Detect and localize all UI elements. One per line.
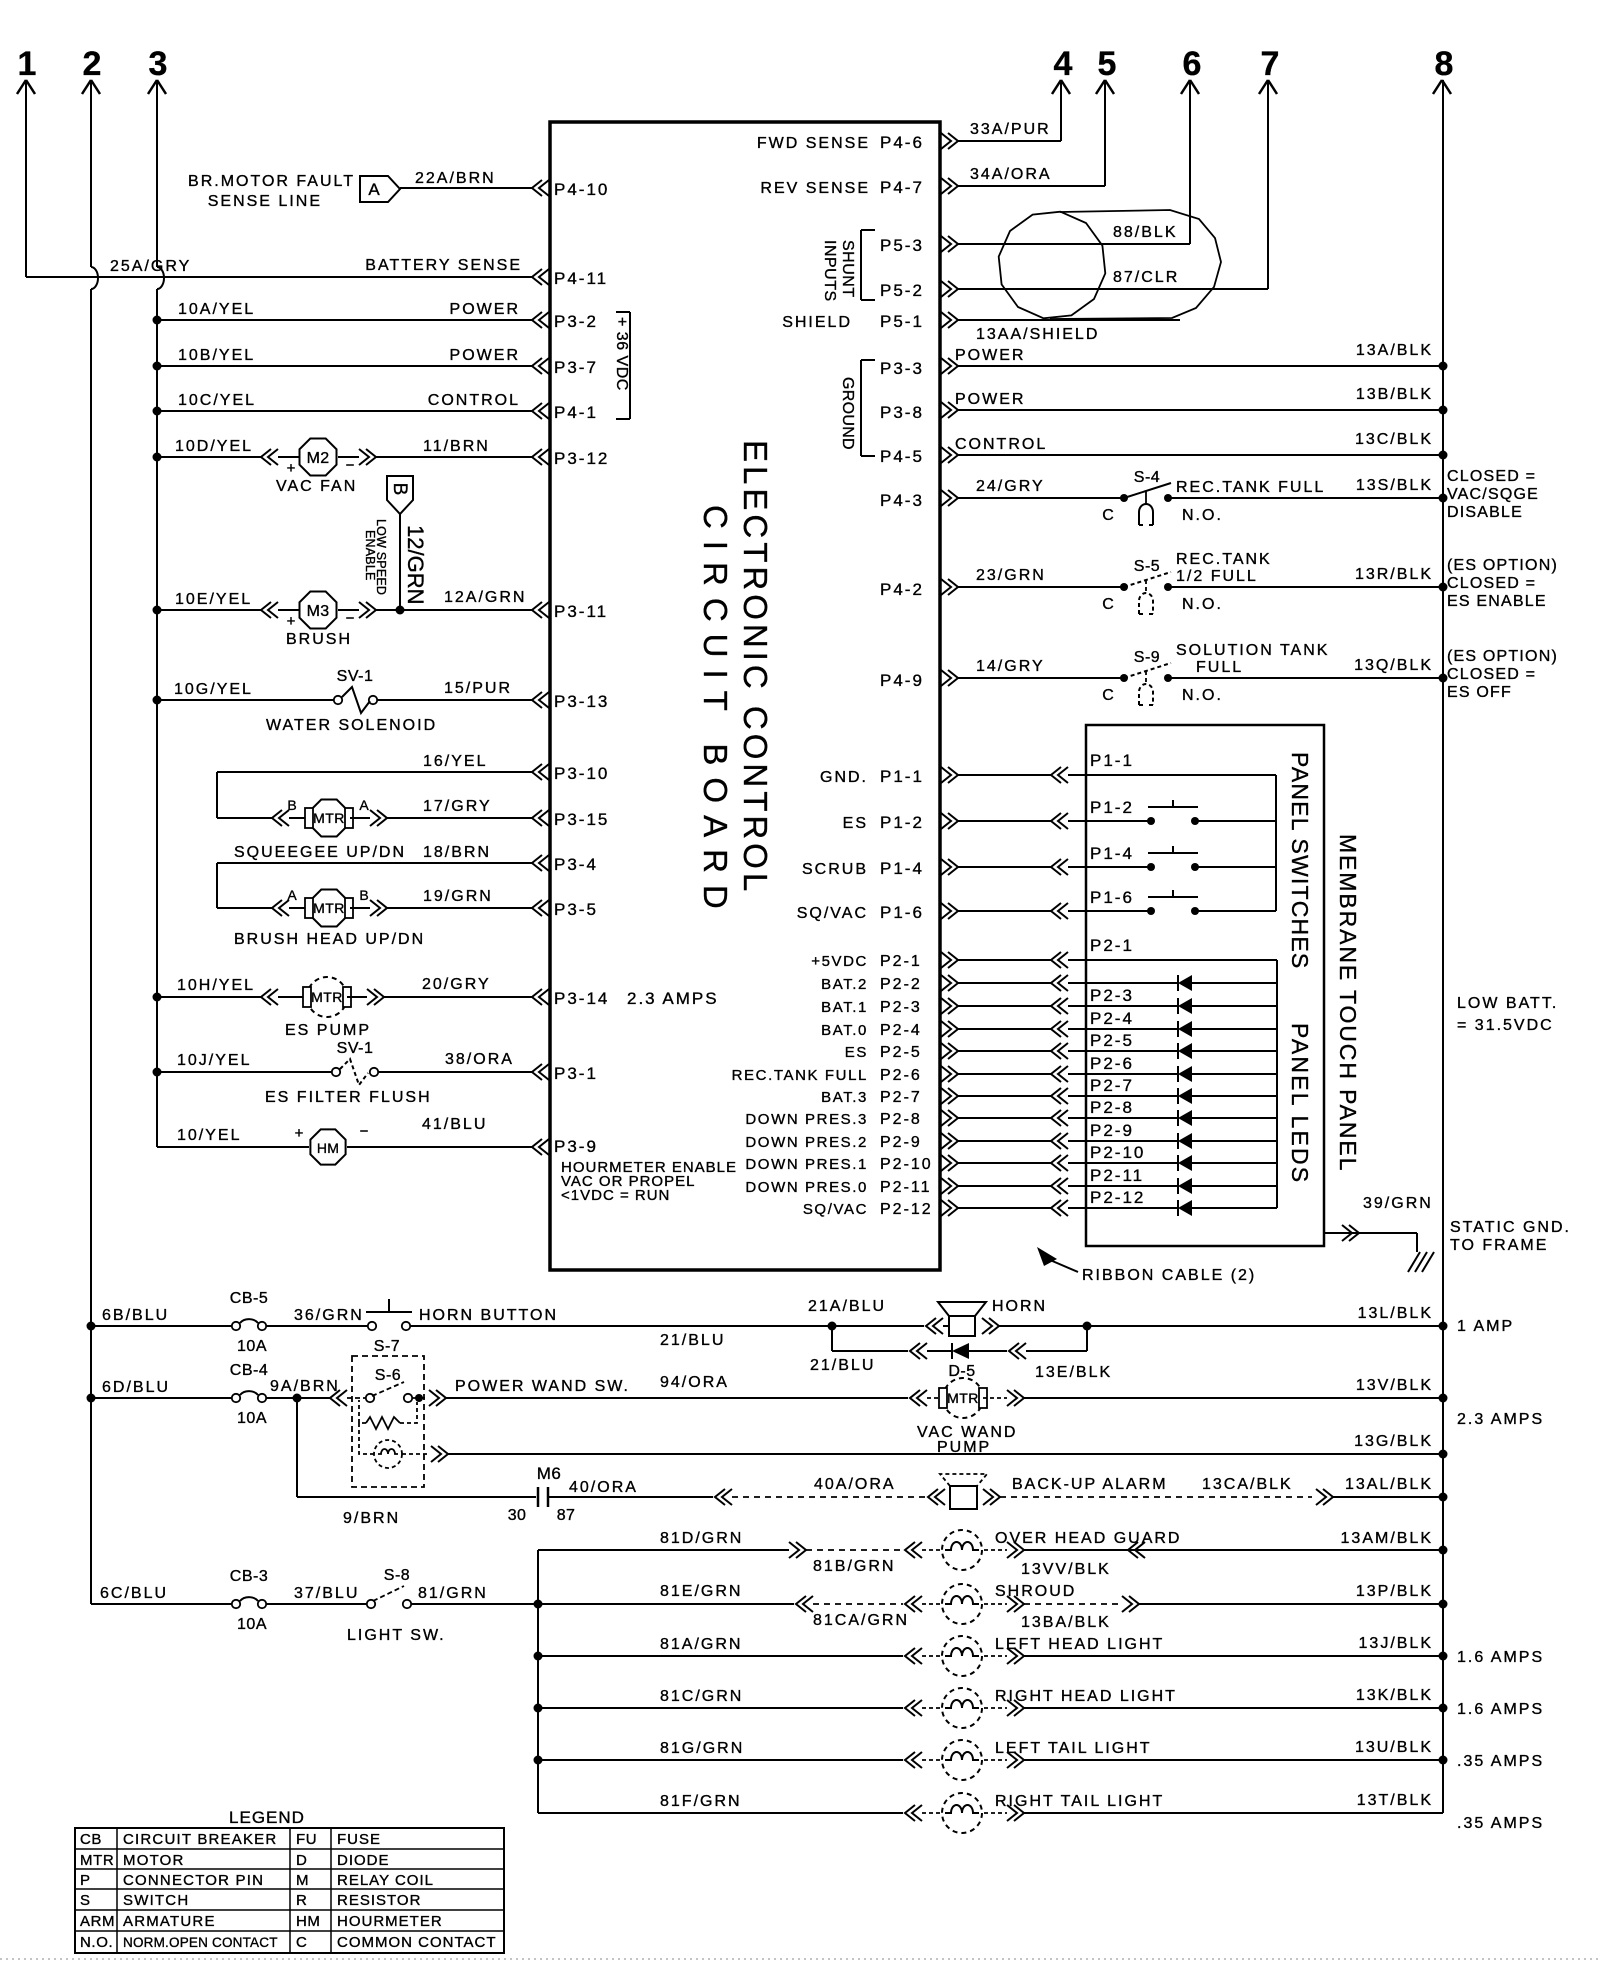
wire 13U/BLK [1024, 1739, 1544, 1770]
svg-text:N.O.: N.O. [80, 1934, 113, 1951]
wire bus 3 (10/YEL feed from arrow 3) [157, 80, 164, 1147]
svg-text:BACK-UP ALARM: BACK-UP ALARM [1012, 1476, 1168, 1493]
lamp (LEFT HEAD LIGHT) [922, 1636, 1164, 1676]
svg-text:P1-1: P1-1 [1090, 751, 1134, 770]
wire P1-4 ribbon [958, 859, 1086, 875]
svg-text:FUSE: FUSE [337, 1831, 381, 1848]
diode D-5 (horn suppression) [810, 1326, 1112, 1381]
svg-text:DOWN PRES.3: DOWN PRES.3 [745, 1111, 868, 1128]
horn (21A/BLU) [808, 1298, 1092, 1336]
svg-text:BRUSH: BRUSH [286, 631, 352, 648]
svg-text:10G/YEL: 10G/YEL [174, 681, 253, 698]
wire 13S/BLK [1168, 477, 1448, 503]
svg-text:81C/GRN: 81C/GRN [660, 1688, 743, 1705]
svg-text:RESISTOR: RESISTOR [337, 1892, 421, 1909]
svg-text:M3: M3 [307, 603, 330, 620]
wire P2-2 ribbon [958, 975, 1086, 991]
svg-text:P4-5: P4-5 [880, 447, 924, 466]
wire 13V/BLK (vac wand pump to bus) [1024, 1377, 1544, 1428]
wire 18/BRN (brush head motor supply) [217, 844, 532, 908]
svg-text:PANEL SWITCHES: PANEL SWITCHES [1287, 752, 1313, 969]
svg-text:P4-2: P4-2 [880, 580, 924, 599]
svg-text:13B/BLK: 13B/BLK [1356, 386, 1433, 403]
lamp (OVER HEAD GUARD) [806, 1530, 1181, 1575]
node 2 (harness arrow 2) [82, 45, 101, 94]
svg-text:5: 5 [1098, 45, 1117, 83]
svg-text:SOLUTION TANK: SOLUTION TANK [1176, 642, 1329, 659]
pin P3-15 [532, 810, 609, 829]
pin P1-1 (GND.) [820, 767, 958, 786]
lamp (RIGHT TAIL LIGHT) [922, 1793, 1164, 1833]
svg-text:13G/BLK: 13G/BLK [1354, 1433, 1433, 1450]
LED P2-4 [1086, 1009, 1277, 1037]
annotation LOW BATT [1457, 995, 1558, 1034]
svg-text:CONTROL: CONTROL [955, 436, 1047, 453]
svg-text:CONTROL: CONTROL [428, 392, 520, 409]
svg-text:P2-1: P2-1 [1090, 936, 1134, 955]
svg-text:P2-11: P2-11 [880, 1179, 932, 1196]
svg-text:6: 6 [1183, 45, 1202, 83]
svg-text:23/GRN: 23/GRN [976, 567, 1046, 584]
svg-text:1 AMP: 1 AMP [1457, 1318, 1514, 1335]
wire P2-10 ribbon [958, 1155, 1086, 1171]
wire 10A/YEL (POWER) [153, 301, 533, 325]
resistor (wand pump soft start) [359, 1400, 417, 1429]
wire 39/GRN (static ground) [1324, 1195, 1433, 1252]
pin P3-5 [532, 900, 598, 919]
svg-text:P3-1: P3-1 [554, 1064, 598, 1083]
scan artifact line [0, 1958, 1600, 1960]
svg-text:CB-3: CB-3 [230, 1568, 268, 1585]
svg-text:13CA/BLK: 13CA/BLK [1202, 1476, 1293, 1493]
pin P3-4 [532, 855, 598, 874]
svg-text:REV SENSE: REV SENSE [760, 180, 870, 197]
svg-text:17/GRY: 17/GRY [423, 798, 492, 815]
svg-text:81G/GRN: 81G/GRN [660, 1740, 744, 1757]
svg-text:LOW BATT.: LOW BATT. [1457, 995, 1558, 1012]
svg-text:CB: CB [80, 1831, 102, 1848]
svg-text:ELECTRONIC CONTROL: ELECTRONIC CONTROL [737, 440, 774, 895]
svg-text:13V/BLK: 13V/BLK [1356, 1377, 1433, 1394]
svg-text:FWD SENSE: FWD SENSE [757, 135, 870, 152]
svg-text:14/GRY: 14/GRY [976, 658, 1045, 675]
wire 25A/GRY (battery sense, arrow 1 to P4-11) [26, 257, 532, 277]
wire P2-3 ribbon [958, 998, 1086, 1014]
wire P2-6 ribbon [958, 1066, 1086, 1082]
svg-text:P3-14: P3-14 [554, 989, 609, 1008]
node 6 (harness arrow 6) [1181, 45, 1201, 94]
svg-text:13L/BLK: 13L/BLK [1358, 1305, 1433, 1322]
wire 9/BRN (to relay contact M6) [297, 1398, 536, 1527]
wire 13R/BLK [1168, 566, 1448, 592]
svg-text:POWER: POWER [955, 347, 1025, 364]
switch S-9 (SOLUTION TANK FULL) [1102, 649, 1223, 705]
svg-text:9A/BRN: 9A/BRN [270, 1378, 340, 1395]
svg-text:REC.TANK FULL: REC.TANK FULL [1176, 479, 1325, 496]
svg-text:(ES OPTION): (ES OPTION) [1447, 648, 1558, 665]
svg-text:13AM/BLK: 13AM/BLK [1341, 1530, 1433, 1547]
switch S-4 (REC.TANK FULL) [1102, 469, 1223, 525]
svg-text:33A/PUR: 33A/PUR [970, 121, 1051, 138]
svg-text:13Q/BLK: 13Q/BLK [1354, 657, 1433, 674]
svg-text:P3-3: P3-3 [880, 359, 924, 378]
wire P2-4 ribbon [958, 1021, 1086, 1037]
svg-text:PANEL LEDS: PANEL LEDS [1287, 1023, 1313, 1184]
svg-text:21/BLU: 21/BLU [660, 1332, 725, 1349]
svg-text:30: 30 [508, 1507, 526, 1524]
LED P2-6 [1086, 1054, 1277, 1082]
svg-text:ES ENABLE: ES ENABLE [1447, 593, 1547, 610]
circuit breaker CB-4 (10A) [87, 1362, 269, 1427]
pin P3-2 [532, 312, 598, 331]
svg-text:10/YEL: 10/YEL [177, 1127, 241, 1144]
wire bus 8 (13/BLK ground bus) [1442, 80, 1444, 1813]
pin P3-7 [532, 358, 598, 377]
svg-text:HM: HM [296, 1913, 321, 1930]
svg-text:P2-7: P2-7 [1090, 1076, 1134, 1095]
svg-text:BAT.2: BAT.2 [821, 976, 868, 993]
pin P3-11 [532, 602, 608, 621]
svg-text:BAT.3: BAT.3 [821, 1089, 868, 1106]
svg-text:FU: FU [296, 1831, 317, 1848]
svg-text:SHIELD: SHIELD [782, 314, 852, 331]
svg-text:ES PUMP: ES PUMP [285, 1022, 371, 1039]
svg-text:CB-4: CB-4 [230, 1362, 268, 1379]
pin P4-11 [532, 269, 608, 288]
svg-text:P3-12: P3-12 [554, 449, 609, 468]
wire P2-12 ribbon [958, 1200, 1086, 1216]
svg-text:WATER SOLENOID: WATER SOLENOID [266, 717, 437, 734]
wire P1-6 ribbon [958, 903, 1086, 919]
svg-text:RIBBON CABLE (2): RIBBON CABLE (2) [1082, 1267, 1256, 1284]
pin P1-2 (ES) [843, 813, 958, 832]
pin P2-9 (DOWN PRES.2) [745, 1133, 958, 1151]
svg-text:MTR: MTR [311, 989, 343, 1005]
svg-text:P3-13: P3-13 [554, 692, 609, 711]
svg-text:A: A [359, 797, 369, 813]
svg-text:P4-6: P4-6 [880, 133, 924, 152]
svg-text:POWER: POWER [955, 391, 1025, 408]
pin P1-4 (SCRUB) [802, 859, 958, 878]
wire 11/BRN (M2 to P3-12) [338, 438, 532, 465]
svg-text:P2-5: P2-5 [880, 1044, 922, 1061]
svg-text:SCRUB: SCRUB [802, 861, 868, 878]
wire 81G/GRN [538, 1740, 922, 1768]
pin P5-2 [880, 281, 958, 300]
svg-text:10B/YEL: 10B/YEL [178, 347, 255, 364]
svg-text:−: − [346, 457, 355, 474]
svg-text:= 31.5VDC: = 31.5VDC [1457, 1017, 1554, 1034]
svg-text:81F/GRN: 81F/GRN [660, 1793, 742, 1810]
wire P1-1 (panel common) [1086, 751, 1276, 911]
svg-text:P3-9: P3-9 [554, 1137, 598, 1156]
svg-text:P3-4: P3-4 [554, 855, 598, 874]
svg-text:SQ/VAC: SQ/VAC [803, 1201, 868, 1218]
svg-text:CLOSED =: CLOSED = [1447, 666, 1536, 683]
svg-text:10A/YEL: 10A/YEL [178, 301, 255, 318]
wire 17/GRY (squeegee motor to P3-15) [350, 798, 532, 826]
wire 24/GRY (P4-3 to S-4) [958, 478, 1124, 498]
svg-text:2: 2 [83, 45, 102, 83]
svg-text:N.O.: N.O. [1182, 687, 1223, 704]
svg-text:HOURMETER: HOURMETER [337, 1913, 443, 1930]
wire 13AM/BLK [1021, 1530, 1448, 1578]
svg-text:LEFT HEAD LIGHT: LEFT HEAD LIGHT [995, 1636, 1164, 1653]
lamp (RIGHT HEAD LIGHT) [922, 1688, 1177, 1728]
svg-text:POWER: POWER [450, 301, 520, 318]
svg-text:MTR: MTR [313, 810, 345, 826]
LED P2-8 [1086, 1098, 1277, 1126]
hourmeter HM [157, 1123, 369, 1165]
svg-text:DOWN PRES.2: DOWN PRES.2 [745, 1134, 868, 1151]
svg-text:25A/GRY: 25A/GRY [110, 258, 191, 275]
svg-text:MTR: MTR [947, 1390, 979, 1406]
svg-text:P2-6: P2-6 [880, 1067, 922, 1084]
relay contact M6 (30/87) [508, 1464, 575, 1524]
pin P3-10 [532, 764, 609, 783]
svg-text:13T/BLK: 13T/BLK [1357, 1792, 1433, 1809]
svg-text:+: + [287, 613, 296, 630]
svg-text:VAC/SQGE: VAC/SQGE [1447, 486, 1539, 503]
solenoid valve SV-1 (WATER SOLENOID) [153, 668, 438, 734]
svg-text:HORN BUTTON: HORN BUTTON [419, 1307, 558, 1324]
svg-text:RIGHT TAIL LIGHT: RIGHT TAIL LIGHT [995, 1793, 1164, 1810]
svg-text:P1-6: P1-6 [880, 903, 924, 922]
svg-text:<1VDC = RUN: <1VDC = RUN [561, 1187, 670, 1204]
svg-text:A: A [368, 180, 380, 199]
pin P3-8 (POWER ground) [880, 402, 958, 422]
pin P2-11 (DOWN PRES.0) [745, 1178, 958, 1196]
annotation (ES OPTION) [1447, 557, 1558, 610]
pin P4-5 (CONTROL ground) [880, 447, 958, 466]
svg-text:.35 AMPS: .35 AMPS [1457, 1753, 1544, 1770]
svg-text:B: B [389, 483, 410, 496]
svg-text:LEFT TAIL LIGHT: LEFT TAIL LIGHT [995, 1740, 1152, 1757]
svg-text:SHUNT: SHUNT [839, 240, 856, 298]
svg-text:34A/ORA: 34A/ORA [970, 166, 1052, 183]
wire bus 2 (6/BLU feed from arrow 2) [91, 80, 98, 1604]
svg-text:13C/BLK: 13C/BLK [1355, 431, 1433, 448]
wire P2-7 ribbon [958, 1088, 1086, 1104]
wire 13G/BLK (relay coil to bus) [431, 1433, 1448, 1462]
node 1 (harness arrow 1) [17, 45, 36, 277]
wire 13A/BLK [955, 342, 1448, 371]
svg-text:(ES OPTION): (ES OPTION) [1447, 557, 1558, 574]
flag B (low speed enable) [363, 476, 413, 595]
svg-text:P4-3: P4-3 [880, 491, 924, 510]
pin P2-10 (DOWN PRES.1) [745, 1155, 958, 1173]
svg-text:COMMON CONTACT: COMMON CONTACT [337, 1934, 497, 1951]
svg-text:P3-11: P3-11 [554, 602, 608, 621]
svg-text:1.6 AMPS: 1.6 AMPS [1457, 1701, 1544, 1718]
wire 12/GRN (B flag to node) [400, 514, 428, 610]
svg-text:P2-11: P2-11 [1090, 1166, 1144, 1185]
switch S-7 (HORN BUTTON) [266, 1299, 558, 1355]
svg-text:81CA/GRN: 81CA/GRN [813, 1612, 909, 1629]
svg-text:R: R [296, 1892, 307, 1909]
svg-text:P2-9: P2-9 [1090, 1121, 1134, 1140]
svg-text:M2: M2 [307, 450, 330, 467]
pin P1-6 (SQ/VAC) [797, 903, 958, 922]
bracket SHUNT INPUTS [821, 230, 875, 302]
svg-text:P2-2: P2-2 [880, 976, 922, 993]
svg-text:M6: M6 [537, 1464, 562, 1483]
pin P4-10 [532, 180, 609, 199]
svg-text:GROUND: GROUND [839, 377, 856, 450]
pin P3-13 [532, 692, 609, 711]
svg-text:16/YEL: 16/YEL [423, 753, 487, 770]
svg-text:MTR: MTR [80, 1852, 114, 1869]
lamp (SHROUD) [813, 1583, 1076, 1629]
wire P1-2 ribbon [958, 813, 1086, 829]
node 3 (harness arrow 3) [148, 45, 167, 94]
svg-text:P2-7: P2-7 [880, 1089, 922, 1106]
svg-text:P3-8: P3-8 [880, 403, 924, 422]
pin P5-1 (SHIELD) [782, 312, 958, 331]
svg-text:10H/YEL: 10H/YEL [177, 977, 255, 994]
wire 81F/GRN [538, 1793, 922, 1821]
wire P2-1 ribbon [958, 952, 1086, 968]
wire 81/GRN (light switch to light bus) [411, 1585, 543, 1609]
svg-text:CIRCUIT BOARD: CIRCUIT BOARD [697, 505, 734, 921]
svg-text:P3-5: P3-5 [554, 900, 598, 919]
svg-text:40A/ORA: 40A/ORA [814, 1476, 896, 1493]
label REC.TANK FULL [1176, 479, 1325, 496]
svg-text:3: 3 [149, 45, 168, 83]
switch panel P1-2 [1086, 798, 1276, 825]
svg-text:6B/BLU: 6B/BLU [102, 1307, 169, 1324]
LED P2-12 [1086, 1188, 1277, 1216]
svg-text:S: S [80, 1892, 91, 1909]
label PANEL LEDS [1287, 1023, 1313, 1184]
node 4 (harness arrow 4) [1052, 45, 1073, 94]
pin P4-6 (FWD SENSE) [757, 133, 958, 152]
annotation .35 AMPS (13T) [1457, 1815, 1544, 1832]
wire 38/ORA (ES filter flush to P3-1) [378, 1051, 532, 1072]
annotation (ES OPTION) [1447, 648, 1558, 701]
svg-text:10A: 10A [237, 1616, 267, 1633]
svg-text:10A: 10A [237, 1410, 267, 1427]
pin P4-9 [880, 670, 958, 690]
switch panel P1-6 [1086, 888, 1276, 915]
svg-text:21/BLU: 21/BLU [810, 1357, 875, 1374]
svg-text:7: 7 [1261, 45, 1280, 83]
pin P2-2 (BAT.2) [821, 975, 958, 993]
svg-text:−: − [360, 1123, 369, 1140]
svg-text:S-8: S-8 [384, 1567, 410, 1584]
svg-text:RELAY COIL: RELAY COIL [337, 1872, 434, 1889]
motor M3 (BRUSH) [153, 591, 355, 648]
svg-text:SQUEEGEE UP/DN: SQUEEGEE UP/DN [234, 844, 406, 861]
pin P2-1 (+5VDC) [811, 952, 958, 970]
pin P4-1 [532, 403, 598, 422]
motor MTR (BRUSH HEAD UP/DN) [217, 887, 425, 948]
wire 41/BLU (hourmeter to P3-9) [347, 1116, 532, 1147]
svg-text:C: C [296, 1934, 307, 1951]
switch S-6 (POWER WAND SW.) [330, 1356, 428, 1487]
svg-text:C: C [1102, 596, 1114, 613]
svg-text:13P/BLK: 13P/BLK [1356, 1583, 1433, 1600]
wire 13B/BLK [955, 386, 1448, 415]
switch panel P1-4 [1086, 844, 1276, 871]
node 8 (harness arrow 8) [1433, 45, 1453, 94]
svg-text:20/GRY: 20/GRY [422, 976, 491, 993]
svg-text:19/GRN: 19/GRN [423, 888, 493, 905]
svg-text:10A: 10A [237, 1338, 267, 1355]
svg-text:P2-10: P2-10 [880, 1156, 933, 1173]
pin P4-3 [880, 490, 958, 510]
node 7 (harness arrow 7) [1259, 45, 1279, 94]
svg-text:P: P [80, 1872, 91, 1889]
LED P2-11 [1086, 1166, 1277, 1194]
bracket GROUND [839, 360, 875, 456]
svg-text:CB-5: CB-5 [230, 1290, 268, 1307]
svg-text:CIRCUIT BREAKER: CIRCUIT BREAKER [123, 1831, 277, 1848]
svg-text:B: B [359, 887, 368, 903]
svg-text:N.O.: N.O. [1182, 596, 1223, 613]
wire 13L/BLK (horn to bus) [1087, 1305, 1514, 1335]
pin P2-12 (SQ/VAC) [803, 1200, 958, 1218]
label RIBBON CABLE (2) [1037, 1247, 1256, 1284]
svg-text:12A/GRN: 12A/GRN [444, 589, 526, 606]
LED P2-3 [1086, 986, 1277, 1014]
svg-text:P2-5: P2-5 [1090, 1031, 1134, 1050]
wire P2-8 ribbon [958, 1110, 1086, 1126]
wire P1-1 ribbon [958, 767, 1086, 783]
circuit breaker CB-5 (10A) [87, 1290, 269, 1355]
wire 19/GRN (brush head motor to P3-5) [350, 888, 532, 916]
svg-text:1: 1 [18, 45, 37, 83]
svg-text:P5-3: P5-3 [880, 236, 924, 255]
motor M2 (VAC FAN) [153, 438, 358, 495]
svg-text:CLOSED =: CLOSED = [1447, 468, 1536, 485]
svg-text:P3-15: P3-15 [554, 810, 609, 829]
svg-text:21A/BLU: 21A/BLU [808, 1298, 886, 1315]
svg-text:FULL: FULL [1196, 659, 1243, 676]
wire 13AL/BLK (alarm to bus) [1333, 1476, 1448, 1502]
node 5 (harness arrow 5) [1096, 45, 1116, 94]
svg-text:10D/YEL: 10D/YEL [175, 438, 253, 455]
svg-text:P1-2: P1-2 [1090, 798, 1134, 817]
LED P2-7 [1086, 1076, 1277, 1104]
wire 81E/GRN [538, 1583, 813, 1612]
svg-text:81B/GRN: 81B/GRN [813, 1558, 895, 1575]
pin P3-12 [532, 449, 609, 468]
svg-text:11/BRN: 11/BRN [423, 438, 490, 455]
svg-text:ES OFF: ES OFF [1447, 684, 1512, 701]
svg-text:P4-10: P4-10 [554, 180, 609, 199]
svg-text:P1-6: P1-6 [1090, 888, 1134, 907]
svg-text:2.3 AMPS: 2.3 AMPS [627, 989, 719, 1008]
svg-text:P1-2: P1-2 [880, 813, 924, 832]
motor MTR (VAC WAND PUMP) [910, 1378, 1024, 1456]
svg-text:P2-9: P2-9 [880, 1134, 922, 1151]
svg-text:MEMBRANE TOUCH PANEL: MEMBRANE TOUCH PANEL [1335, 834, 1361, 1172]
pin P4-7 (REV SENSE) [760, 178, 958, 197]
ground (static ground to frame) [1408, 1219, 1571, 1272]
svg-text:P5-1: P5-1 [880, 312, 924, 331]
svg-text:1.6 AMPS: 1.6 AMPS [1457, 1649, 1544, 1666]
svg-text:S-7: S-7 [374, 1338, 400, 1355]
wire 81A/GRN [538, 1636, 922, 1664]
svg-text:P4-1: P4-1 [554, 403, 598, 422]
svg-text:81A/GRN: 81A/GRN [660, 1636, 742, 1653]
svg-text:BRUSH HEAD UP/DN: BRUSH HEAD UP/DN [234, 931, 425, 948]
svg-text:P2-1: P2-1 [880, 953, 922, 970]
svg-text:13BA/BLK: 13BA/BLK [1021, 1614, 1111, 1631]
svg-text:+: + [295, 1125, 304, 1142]
svg-text:P2-12: P2-12 [880, 1201, 933, 1218]
